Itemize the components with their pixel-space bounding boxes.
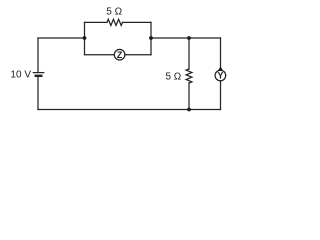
wire top branch right lead [123, 21, 152, 23]
svg-text:5 Ω: 5 Ω [165, 72, 181, 83]
wire bottom rail [38, 109, 221, 111]
svg-text:10 V: 10 V [10, 69, 31, 80]
wire top rail middle (box to right corner) [151, 37, 221, 39]
wire middle branch lower [188, 83, 190, 110]
resistor R1 5 ohm (top branch zigzag) [107, 19, 123, 25]
wire parallel box left vertical [84, 22, 86, 54]
junction dot node B (box right) [149, 36, 153, 40]
junction dot node C (resistor branch top) [187, 36, 191, 40]
svg-text:5 Ω: 5 Ω [106, 7, 122, 18]
junction dot node A (box left) [83, 36, 87, 40]
meter Z circle [114, 49, 125, 60]
arrowhead into meter Y [218, 66, 223, 70]
resistor R2 5 ohm (vertical zigzag) [186, 69, 192, 83]
wire bottom branch left lead [85, 54, 115, 56]
wire right vertical lower [220, 81, 222, 110]
voltage source V1 10 V battery long plate [33, 72, 43, 74]
wire top branch left lead [85, 21, 108, 23]
meter Y circle [215, 70, 226, 81]
voltage source V1 short thick plate [36, 75, 42, 77]
wire right vertical upper [220, 38, 222, 67]
junction dot node D (resistor branch bottom) [187, 108, 191, 112]
wire parallel box right vertical [150, 22, 152, 54]
wire top-left (from battery node to parallel box) [38, 37, 85, 39]
svg-text:Z: Z [117, 50, 123, 60]
wire middle branch upper [188, 38, 190, 69]
svg-text:Y: Y [217, 71, 223, 81]
wire left vertical upper [37, 38, 39, 72]
wire bottom branch right lead [125, 54, 151, 56]
wire left vertical lower [37, 77, 39, 110]
